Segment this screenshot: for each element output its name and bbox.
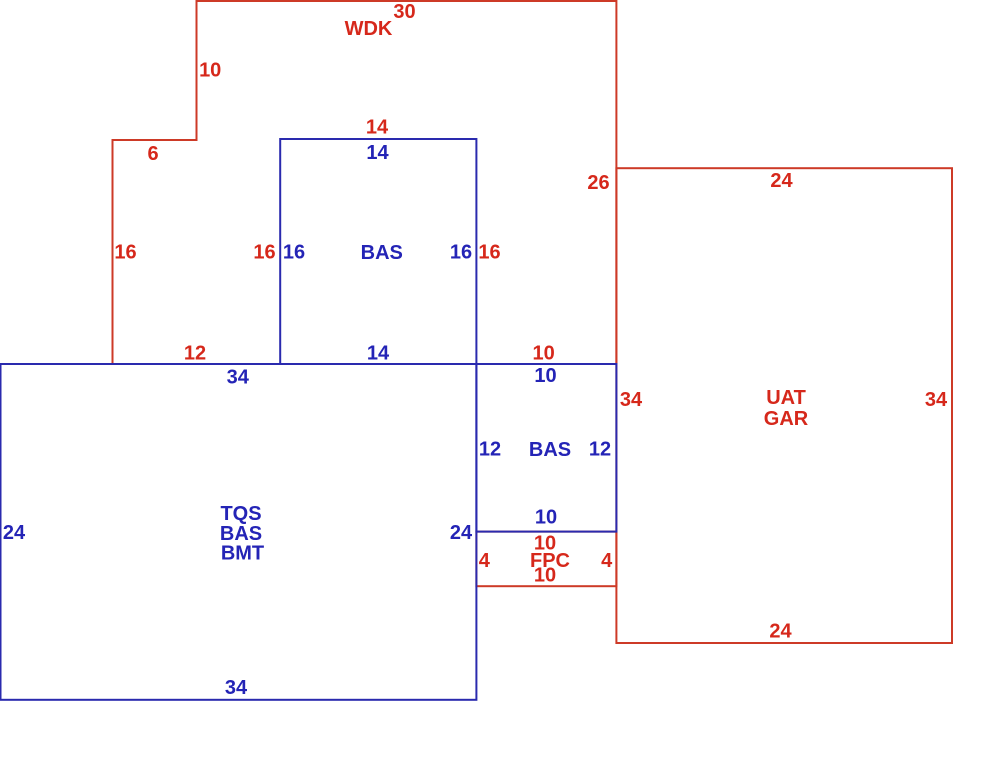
svg-text:BAS: BAS (361, 242, 403, 264)
svg-text:34: 34 (225, 677, 248, 699)
TQS/BAS/BMT outline (blue) (1, 364, 477, 700)
svg-text:12: 12 (589, 439, 611, 461)
svg-text:14: 14 (366, 117, 389, 139)
svg-text:14: 14 (367, 343, 390, 365)
BAS upper outline (blue) (280, 139, 476, 364)
svg-text:BAS: BAS (220, 523, 262, 545)
svg-text:26: 26 (587, 172, 609, 194)
svg-text:24: 24 (3, 522, 26, 544)
BAS middle outline (blue) (476, 364, 616, 532)
svg-text:6: 6 (147, 143, 158, 165)
svg-text:16: 16 (450, 242, 472, 264)
svg-text:24: 24 (770, 170, 793, 192)
UAT GAR outline (red) (616, 168, 952, 643)
svg-text:16: 16 (283, 242, 305, 264)
FPC outline (red) (476, 532, 616, 587)
svg-text:14: 14 (366, 142, 389, 164)
svg-text:12: 12 (479, 439, 501, 461)
svg-text:4: 4 (479, 550, 491, 572)
WDK deck outline (red) (113, 1, 617, 364)
svg-text:30: 30 (393, 1, 415, 23)
svg-text:24: 24 (450, 522, 473, 544)
svg-text:34: 34 (620, 389, 643, 411)
svg-text:10: 10 (532, 343, 554, 365)
svg-text:BAS: BAS (529, 439, 571, 461)
svg-text:TQS: TQS (220, 503, 261, 525)
svg-text:UAT: UAT (766, 387, 806, 409)
svg-text:24: 24 (769, 621, 792, 643)
svg-text:WDK: WDK (345, 18, 393, 40)
svg-text:4: 4 (601, 550, 613, 572)
svg-text:16: 16 (478, 242, 500, 264)
svg-text:10: 10 (534, 565, 556, 587)
svg-text:34: 34 (227, 367, 250, 389)
svg-text:10: 10 (534, 365, 556, 387)
svg-text:16: 16 (253, 242, 275, 264)
svg-text:12: 12 (184, 343, 206, 365)
svg-text:34: 34 (925, 389, 948, 411)
svg-text:16: 16 (114, 242, 136, 264)
svg-text:10: 10 (199, 60, 221, 82)
svg-text:BMT: BMT (221, 543, 264, 565)
svg-text:GAR: GAR (764, 408, 809, 430)
svg-text:10: 10 (535, 507, 557, 529)
